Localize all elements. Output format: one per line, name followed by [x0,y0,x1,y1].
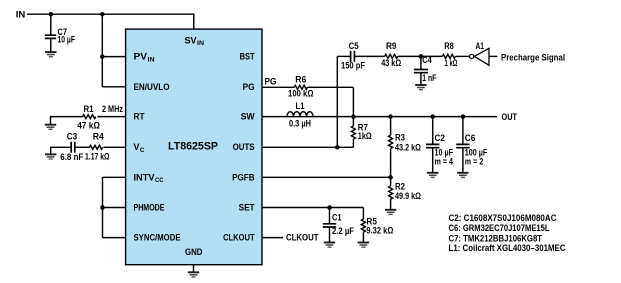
wire IN rail top [27,14,194,29]
svg-text:V: V [134,142,140,152]
svg-text:IN: IN [148,56,156,63]
svg-text:10 µF: 10 µF [58,34,76,44]
svg-text:150 pF: 150 pF [341,61,365,71]
svg-text:SET: SET [239,203,255,213]
svg-text:PV: PV [134,52,148,62]
svg-text:SV: SV [185,35,197,45]
svg-text:R6: R6 [295,75,306,85]
svg-text:LT8625SP: LT8625SP [168,140,218,152]
svg-text:CC: CC [155,177,164,184]
svg-text:C: C [140,147,145,154]
svg-text:PGFB: PGFB [232,172,255,182]
node C6 junction [461,114,466,119]
resistor R9 zigzag [385,54,398,58]
svg-text:PG: PG [265,76,277,86]
resistor R8 zigzag [442,54,455,58]
svg-text:43.2 kΩ: 43.2 kΩ [395,143,421,153]
node OUTS junction [335,145,340,150]
wire R2 bottom stem [390,199,392,210]
wire RT to R1 [97,116,125,118]
wire R9 to R8 [398,55,442,57]
svg-text:Precharge Signal: Precharge Signal [501,52,565,62]
svg-text:47 kΩ: 47 kΩ [77,121,100,131]
svg-text:SW: SW [241,112,255,122]
svg-text:PG: PG [243,82,255,92]
IC U1 LT8625SP body [126,29,262,265]
svg-text:m = 2: m = 2 [465,156,484,166]
wire C6 bottom stem [462,148,464,173]
svg-text:SYNC/MODE: SYNC/MODE [134,233,181,243]
wire SET line [262,207,363,209]
ground C4 [415,85,426,90]
resistor R2 zigzag [389,186,393,199]
svg-text:R3: R3 [395,132,405,142]
wire C3 to ground [51,147,71,154]
ground R5 [358,243,369,248]
svg-text:9.32 kΩ: 9.32 kΩ [366,226,393,236]
wire C7 branch [50,14,52,35]
wire OUTS line [262,146,353,148]
wire R6 to jog corner [308,86,354,88]
svg-text:C3: C3 [67,132,78,142]
pin label SVIN [185,35,205,47]
svg-text:1.17 kΩ: 1.17 kΩ [85,151,110,161]
inductor L1 humps [287,112,313,117]
svg-text:C7: TMK212BBJ106KG8T: C7: TMK212BBJ106KG8T [449,233,543,243]
svg-text:C6: GRM32EC70J107ME15L: C6: GRM32EC70J107ME15L [449,223,550,233]
wire C1 top stem [329,208,331,224]
svg-text:1kΩ: 1kΩ [358,131,372,141]
svg-text:1 nF: 1 nF [422,73,436,83]
wire PHMODE stub [103,207,126,209]
ground RT [45,125,56,130]
resistor R5 zigzag [361,219,365,232]
pin label INTVCC [134,172,165,184]
resistor R7 zigzag [351,126,355,139]
node C2 junction [430,114,435,119]
ground C6 [457,173,468,178]
wire VC to R4 [104,146,126,148]
node R3 junction [388,114,393,119]
svg-text:C4: C4 [422,55,432,65]
resistor R4 zigzag [90,145,103,149]
svg-text:CLKOUT: CLKOUT [223,233,255,243]
svg-text:OUT: OUT [502,112,518,122]
wire C5 to R9 [354,55,384,57]
node SW/R7 junction [351,114,356,119]
wire SW/OUT rail [262,116,497,118]
wire C7 lower stem [50,38,52,52]
capacitor C6 plates [456,144,469,147]
wire PVIN stub [102,56,125,58]
node PGFB junction [388,175,393,180]
wire SYNC/MODE stub [103,237,126,239]
wire R3 bottom stem [390,149,392,178]
svg-text:C2: C2 [435,133,446,143]
svg-text:IN: IN [197,40,205,47]
svg-text:R1: R1 [84,104,94,114]
svg-text:C1: C1 [332,212,342,222]
wire R1 to ground [51,117,83,125]
svg-text:2.2 µF: 2.2 µF [332,226,354,236]
wire R5 to ground [362,232,364,242]
node C4 junction [419,54,424,59]
svg-text:C2: C1608X7S0J106M080AC: C2: C1608X7S0J106M080AC [449,213,557,223]
capacitor C5 plates [351,51,355,62]
svg-text:R9: R9 [386,41,397,51]
wire C5-OUTS vertical [336,56,338,147]
wire INTVCC stub [103,176,126,178]
capacitor C2 plates [426,144,439,147]
svg-text:43 kΩ: 43 kΩ [381,58,401,68]
wire CLKOUT stub [262,237,283,239]
svg-text:L1: Coilcraft XGL4030–301MEC: L1: Coilcraft XGL4030–301MEC [449,243,566,253]
svg-text:BST: BST [240,52,255,62]
svg-text:OUTS: OUTS [233,142,255,152]
svg-text:C5: C5 [349,41,359,51]
resistor R1 zigzag [83,115,96,119]
wire C4 top stem [420,56,422,69]
node PVIN junction [100,54,105,59]
svg-text:49.9 kΩ: 49.9 kΩ [395,191,421,201]
wire C1 bottom stem [329,227,331,243]
ground IC GND [188,272,199,277]
wire R4 to C3 [75,146,90,148]
svg-text:R2: R2 [395,182,405,192]
wire R7 bottom stem [352,139,354,147]
wire C6 top stem [462,117,464,145]
wire R7 top stem [352,117,354,126]
svg-text:IN: IN [16,9,25,19]
svg-text:RT: RT [134,112,145,122]
op-amp A1 buffer triangle [470,48,490,65]
node SET/C1 junction [327,205,332,210]
wire R8 to A1 bubble [456,55,470,57]
svg-text:EN/UVLO: EN/UVLO [134,82,170,92]
wire C2 bottom stem [432,148,434,173]
node IN/C7 junction [49,12,54,17]
wire C2 top stem [432,117,434,145]
wire A1 to Precharge label [489,55,498,57]
resistor R3 zigzag [389,135,393,148]
wire EN/UVLO stub [102,86,125,88]
capacitor C4 plates [414,70,428,73]
node PHMODE junction [100,205,105,210]
svg-text:CLKOUT: CLKOUT [286,233,319,243]
wire C4 bottom stem [420,73,422,85]
pin label PVIN [134,52,156,64]
svg-text:m = 4: m = 4 [435,156,454,166]
svg-text:6.8 nF: 6.8 nF [60,152,83,162]
svg-text:GND: GND [185,247,203,257]
wire PVIN/EN vertical [101,14,103,87]
ground C7 [45,52,56,57]
ground C3 [45,154,56,159]
ground C1 [324,243,335,248]
pin label VC [134,142,145,154]
wire PGFB line [262,176,391,178]
node IN/PVIN junction [100,12,105,17]
capacitor C1 plates [323,224,336,227]
svg-text:R4: R4 [93,132,104,142]
svg-text:C6: C6 [465,133,476,143]
wire INTVCC-SYNC vertical [102,177,104,237]
svg-text:2 MHz: 2 MHz [102,104,123,114]
wire PG to R6 [262,86,294,88]
svg-text:100 kΩ: 100 kΩ [288,89,314,99]
svg-text:INTV: INTV [134,172,155,182]
wire GND stem [193,265,195,272]
svg-text:L1: L1 [296,101,305,111]
wire R2 top stem [390,177,392,186]
svg-text:1 kΩ: 1 kΩ [445,58,458,68]
svg-text:R8: R8 [444,41,454,51]
wire PG jog down to SW node [352,87,354,116]
wire corner to C5 [337,55,350,57]
svg-text:0.3 µH: 0.3 µH [289,118,311,128]
svg-text:A1: A1 [475,41,484,51]
capacitor C7 plates [45,35,56,38]
capacitor C3 plates [71,142,75,153]
wire SET corner down to R5 [362,208,364,220]
wire R3 top stem [390,117,392,136]
ground R2 [385,210,396,215]
svg-text:PHMODE: PHMODE [134,203,165,213]
ground C2 [427,173,438,178]
resistor R6 zigzag [294,85,307,89]
